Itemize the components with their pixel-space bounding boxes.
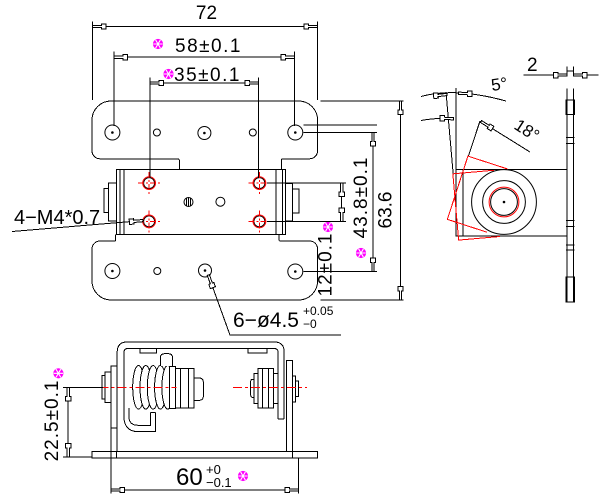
top flange outline bbox=[92, 101, 318, 169]
bottom flange outline bbox=[92, 235, 318, 301]
bottom flange hole center bbox=[199, 264, 212, 277]
red rotated block 5deg bbox=[453, 170, 500, 240]
dim 72 line bbox=[92, 26, 317, 28]
side plate tab 4 bbox=[566, 245, 575, 250]
ext lines 60 bbox=[111, 428, 299, 494]
ext hole row 1 bbox=[304, 132, 378, 134]
svg-text:−0.1: −0.1 bbox=[206, 475, 232, 490]
right wall bottom cap bbox=[278, 418, 284, 420]
bracket inner profile bbox=[124, 348, 278, 418]
base plate bbox=[92, 451, 317, 458]
18 deg arc arrow bbox=[440, 115, 454, 121]
centerline left bbox=[100, 386, 177, 388]
hinge body rect bbox=[117, 169, 286, 234]
barrel middle circle bbox=[483, 181, 526, 224]
dim 43.8 line bbox=[372, 133, 374, 272]
right washer 2 bbox=[273, 373, 278, 403]
svg-text:60: 60 bbox=[176, 464, 203, 491]
bracket outer profile bbox=[117, 342, 284, 451]
ext tapped row 2 bbox=[267, 220, 346, 222]
svg-text:43.8±0.1: 43.8±0.1 bbox=[351, 157, 372, 239]
top flange hole small right bbox=[249, 129, 256, 136]
asterisk 22.5 bbox=[53, 368, 63, 378]
side plate lines bbox=[567, 67, 574, 303]
side plate tab 3 bbox=[566, 221, 575, 227]
dim 60 bbox=[111, 428, 299, 494]
base crossing line left bbox=[116, 451, 118, 458]
svg-text:58±0.1: 58±0.1 bbox=[175, 36, 242, 57]
18 leader line bbox=[481, 122, 530, 153]
side plate tab 2 bbox=[566, 138, 575, 144]
leader 4-M4*0.7 bbox=[12, 221, 143, 232]
ext tapped row 1 bbox=[267, 182, 346, 184]
dim 72 arrows bbox=[92, 24, 106, 29]
tapped hole 2 bbox=[254, 178, 265, 189]
asterisk 60 bbox=[238, 471, 248, 481]
svg-text:−0: −0 bbox=[303, 317, 317, 331]
spring top hook bbox=[160, 354, 172, 366]
barrel outer circle bbox=[472, 170, 537, 235]
side plate bottom cap bbox=[567, 301, 574, 303]
left J strap outer bbox=[124, 412, 156, 432]
barrel inner circle bbox=[491, 189, 518, 216]
tapped hole 3 bbox=[144, 216, 155, 227]
dim 58 arrows bbox=[114, 55, 128, 60]
left bolt tip bbox=[194, 378, 203, 400]
dim 35 extension lines bbox=[150, 78, 258, 178]
asterisk 43.8 bbox=[356, 248, 366, 258]
dim line 22.5 bbox=[67, 387, 69, 457]
svg-text:4−M4*0.7: 4−M4*0.7 bbox=[14, 207, 100, 229]
tapped hole 1 bbox=[144, 178, 155, 189]
dim 43.8 arrows bbox=[370, 133, 375, 147]
svg-text:2: 2 bbox=[527, 55, 538, 76]
bottom flange hole small left bbox=[154, 268, 161, 275]
ext bottom edge bbox=[321, 299, 404, 301]
leader 6-dia4.5 bbox=[208, 275, 341, 335]
right bolt tip bbox=[251, 379, 254, 397]
5 deg arc arrows bbox=[433, 92, 447, 99]
dim 35 arrows bbox=[150, 80, 164, 85]
red rotated block 18deg bbox=[447, 156, 507, 232]
top flange hole small left bbox=[153, 129, 160, 136]
left washer bbox=[105, 372, 111, 403]
side plate top cap bbox=[567, 70, 574, 72]
vertical reference line bbox=[455, 88, 457, 170]
svg-text:6−ø4.5: 6−ø4.5 bbox=[233, 309, 299, 332]
side plate tab 1 bbox=[566, 100, 575, 115]
hinge pin knurled bbox=[184, 198, 193, 207]
dim line 60 bbox=[111, 489, 299, 491]
right side tab cap bbox=[292, 189, 299, 213]
svg-text:5°: 5° bbox=[490, 74, 509, 95]
base crossing line right bbox=[292, 451, 294, 458]
right washer 1 bbox=[254, 373, 258, 403]
5 degree line bbox=[446, 92, 453, 174]
ext hole top edge bbox=[304, 124, 378, 126]
hinge block inner edge bbox=[462, 170, 464, 237]
top flange hole center bbox=[198, 127, 211, 140]
dim 12 line bbox=[341, 183, 343, 221]
dim 58 extension lines bbox=[114, 52, 294, 127]
dim 58 line bbox=[114, 56, 294, 58]
bottom flange hole big left bbox=[105, 264, 120, 279]
right side tab bbox=[286, 183, 293, 221]
hinge bend lines bbox=[120, 169, 283, 234]
dim 63.6 arrows bbox=[398, 101, 403, 115]
top flange hole big right bbox=[288, 125, 303, 140]
top flange hole big left bbox=[105, 125, 120, 140]
spring coils bbox=[133, 366, 174, 410]
dim 12 arrows bbox=[339, 183, 344, 197]
left washer 2 bbox=[170, 366, 176, 408]
18 leader arrow bbox=[480, 119, 494, 131]
ext lines 22.5 bbox=[63, 387, 103, 457]
dim 2 lines bbox=[524, 74, 599, 76]
barrel red circle bbox=[489, 187, 519, 217]
tapped hole 4 bbox=[254, 216, 265, 227]
left J strap inner bbox=[129, 408, 151, 425]
dim 72 extension lines bbox=[92, 22, 317, 101]
hinge block side bbox=[456, 170, 567, 237]
asterisk 12 bbox=[323, 222, 333, 232]
svg-text:72: 72 bbox=[196, 3, 217, 24]
right bolt cap bbox=[296, 381, 299, 397]
centerline right bbox=[233, 386, 307, 388]
svg-text:63.6: 63.6 bbox=[376, 192, 397, 229]
18 degree arc bbox=[421, 118, 454, 120]
asterisk 58 bbox=[153, 39, 163, 49]
dim 63.6 line bbox=[400, 101, 402, 300]
left flange plate front bbox=[111, 366, 117, 428]
left hex nut bbox=[175, 369, 194, 408]
svg-text:+0.05: +0.05 bbox=[303, 304, 334, 318]
18 degree line bbox=[468, 121, 480, 156]
J strap cap bbox=[150, 412, 155, 414]
right flange plate front bbox=[287, 360, 293, 451]
dim 22.5 bbox=[63, 387, 103, 457]
svg-text:12±0.1: 12±0.1 bbox=[316, 233, 337, 297]
hinge hole center bbox=[216, 197, 225, 206]
asterisk 35 bbox=[163, 69, 173, 79]
bottom flange hole big right bbox=[288, 264, 303, 279]
right washer 3 bbox=[293, 376, 296, 402]
ext hole row 2 bbox=[304, 271, 378, 273]
right hex nut bbox=[258, 369, 274, 408]
svg-text:22.5±0.1: 22.5±0.1 bbox=[42, 380, 63, 462]
side plate tab 5 bbox=[566, 277, 575, 302]
svg-text:35±0.1: 35±0.1 bbox=[174, 65, 241, 86]
left side tab cap bbox=[104, 189, 109, 213]
left bolt cap bbox=[102, 376, 105, 399]
5 degree arc bbox=[421, 93, 506, 101]
tapped holes M4 with red thread circles bbox=[138, 172, 271, 233]
dim 35 line bbox=[150, 82, 258, 84]
ext top edge bbox=[321, 100, 404, 102]
left side tab bbox=[109, 183, 117, 221]
top notch right bbox=[248, 348, 267, 353]
top notch left bbox=[140, 348, 157, 353]
